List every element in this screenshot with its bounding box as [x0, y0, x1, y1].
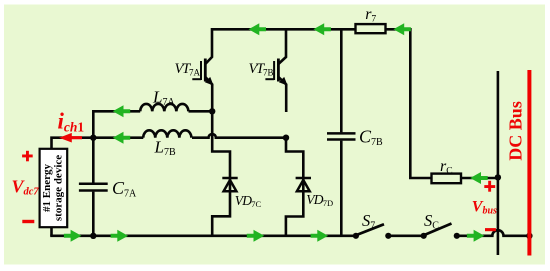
wire: L7A drop to junction — [92, 110, 95, 138]
current arrow (top rail, 2nd) — [313, 23, 331, 35]
wire: rC to DC bus — [461, 177, 498, 180]
svg-text:DC Bus: DC Bus — [505, 101, 525, 161]
wire: bottom bus after SC with hop over black bus line — [457, 230, 530, 236]
label + (right) — [484, 181, 495, 192]
wire: L7A right segment — [189, 110, 214, 113]
current arrow (rC wire) — [470, 172, 488, 184]
wire: C7A bottom lead — [92, 192, 95, 236]
junction node: L7A / ich1 / C7A — [90, 135, 96, 141]
capacitor C7A — [79, 184, 108, 191]
wire: top rail left segment — [212, 28, 356, 31]
current arrow (bottom bus into DC bus) — [467, 230, 485, 242]
junction node: bottom bus / red DC bus — [526, 233, 532, 239]
wire: C7A top lead — [92, 136, 95, 182]
wire: C7B bottom lead — [340, 141, 343, 236]
svg-text:#1 Energy: #1 Energy — [41, 164, 53, 212]
wire: ich1 wire from junction to storage box — [52, 138, 95, 150]
wire: bottom bus left portion — [50, 235, 356, 238]
wire: VT7A emitter leg down through VD7C to bottom bus — [212, 110, 230, 236]
wire: storage box bottom stub — [50, 227, 53, 236]
resistor r7 — [356, 24, 386, 33]
wire: bottom bus between switches — [388, 235, 423, 238]
current arrow ich1 (red) — [59, 133, 82, 143]
transistor VT7B — [265, 28, 287, 112]
current arrow (bottom bus 2) — [111, 230, 129, 242]
wire: right drop from top rail to rC — [410, 28, 432, 178]
resistor rC — [432, 174, 462, 184]
svg-text:storage device: storage device — [52, 155, 64, 221]
energy storage device box — [40, 149, 68, 227]
junction node: C7A bottom — [90, 233, 96, 239]
DC bus red line — [527, 70, 531, 256]
diode VD7C — [222, 178, 237, 191]
label - (left) — [22, 220, 34, 223]
current arrow (bottom bus 3) — [247, 230, 265, 242]
junction node: rC wire / DC bus — [495, 174, 501, 180]
switch S7 — [353, 224, 392, 239]
wire: L7A left segment — [93, 110, 140, 113]
capacitor C7B — [327, 133, 356, 139]
wire: L7B right segment with hop over VT7A leg — [192, 134, 286, 138]
wire: VT7B emitter leg down through VD7D to bottom bus — [286, 136, 303, 236]
switch SC — [421, 224, 460, 239]
current arrow (L7B wire) — [113, 132, 131, 144]
diode VD7D — [296, 178, 311, 191]
current arrow (top rail, after r7) — [393, 23, 411, 35]
current arrow (bottom bus 1) — [64, 230, 82, 242]
transistor VT7A — [192, 28, 213, 112]
label + (left) — [22, 151, 33, 162]
wire: top rail right of r7 — [385, 28, 412, 31]
label - (right) — [485, 228, 496, 231]
junction node: VT7A emitter / L7A — [209, 108, 215, 114]
current arrow (top rail, 1st) — [249, 23, 267, 35]
inductor L7B — [143, 130, 191, 137]
inductor L7A — [140, 104, 188, 111]
current arrow (L7A wire) — [113, 105, 131, 117]
wire: C7B branch top lead — [340, 29, 343, 132]
current arrow (bottom bus 4) — [311, 230, 329, 242]
DC bus black line — [497, 71, 500, 255]
junction node: VT7B emitter / L7B — [283, 135, 289, 141]
wire: L7B left segment — [93, 136, 143, 139]
